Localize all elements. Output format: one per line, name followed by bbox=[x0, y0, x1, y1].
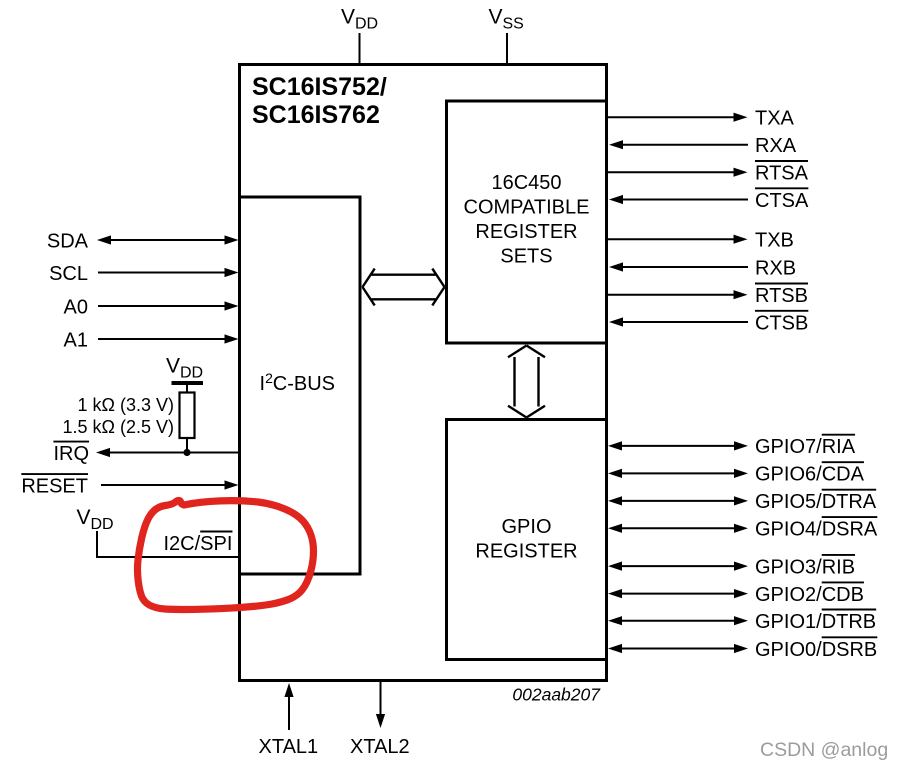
pin GPIO1/DTRB (bidirectional) bbox=[608, 610, 876, 634]
svg-text:RESET: RESET bbox=[21, 475, 88, 497]
power symbol VDD (pull-up) bbox=[166, 355, 203, 384]
svg-text:CTSA: CTSA bbox=[755, 190, 809, 212]
svg-text:GPIO4/DSRA: GPIO4/DSRA bbox=[755, 519, 878, 541]
pin GPIO5/DTRA (bidirectional) bbox=[608, 490, 877, 514]
outer box SC16IS752/SC16IS762 bbox=[240, 65, 607, 681]
svg-text:GPIO5/DTRA: GPIO5/DTRA bbox=[755, 491, 877, 513]
svg-text:A1: A1 bbox=[64, 329, 88, 351]
svg-text:DD: DD bbox=[180, 365, 203, 382]
svg-text:I2C/SPI: I2C/SPI bbox=[164, 533, 233, 555]
label resistor value 1 kOhm (3.3 V) / 1.5 kOhm (2.5 V) bbox=[63, 395, 175, 437]
block 16C450 COMPATIBLE REGISTER SETS bbox=[447, 101, 607, 343]
svg-text:A0: A0 bbox=[64, 296, 88, 318]
pin A0 (input) bbox=[64, 296, 239, 318]
power pin VSS (top) bbox=[489, 6, 524, 33]
pin SCL (input) bbox=[49, 263, 238, 285]
bus arrow 16C450 to GPIO REGISTER (vertical double arrow) bbox=[508, 346, 545, 418]
pin XTAL2 (output) bbox=[350, 682, 410, 758]
pin GPIO6/CDA (bidirectional) bbox=[608, 462, 865, 486]
svg-text:DD: DD bbox=[91, 516, 114, 533]
svg-text:CTSB: CTSB bbox=[755, 312, 808, 334]
svg-text:GPIO7/RIA: GPIO7/RIA bbox=[755, 436, 856, 458]
pin SDA (bidirectional) bbox=[47, 230, 239, 252]
svg-text:GPIO6/CDA: GPIO6/CDA bbox=[755, 464, 865, 486]
svg-text:C-BUS: C-BUS bbox=[273, 373, 335, 395]
svg-text:002aab207: 002aab207 bbox=[512, 685, 601, 705]
svg-text:TXA: TXA bbox=[755, 108, 795, 130]
svg-text:1 kΩ (3.3 V): 1 kΩ (3.3 V) bbox=[78, 395, 175, 415]
label figure id 002aab207 bbox=[512, 685, 601, 705]
wire VDD to I2C/SPI pin bbox=[96, 531, 240, 557]
svg-text:TXB: TXB bbox=[755, 230, 794, 252]
pin CTSB (input, active low) bbox=[609, 311, 808, 335]
svg-text:RXB: RXB bbox=[755, 257, 796, 279]
annotation red circle around I2C/SPI bbox=[137, 501, 313, 610]
svg-text:V: V bbox=[166, 355, 180, 378]
power pin VDD (I2C/SPI select) bbox=[77, 506, 114, 533]
svg-text:IRQ: IRQ bbox=[53, 443, 89, 465]
pin GPIO0/DSRB (bidirectional) bbox=[608, 637, 877, 661]
pin RTSA (output, active low) bbox=[607, 161, 809, 185]
svg-text:GPIO0/DSRB: GPIO0/DSRB bbox=[755, 639, 877, 661]
pin XTAL1 (input) bbox=[259, 683, 319, 758]
pin RXA (input) bbox=[609, 135, 797, 157]
wire VDD bar to resistor bbox=[186, 385, 188, 393]
pin A1 (input) bbox=[64, 329, 239, 351]
svg-text:SC16IS762: SC16IS762 bbox=[252, 101, 380, 129]
wire resistor to IRQ line bbox=[186, 438, 188, 453]
watermark CSDN @anlog bbox=[760, 739, 888, 761]
pin RXB (input) bbox=[609, 257, 796, 279]
svg-text:REGISTER: REGISTER bbox=[475, 221, 577, 243]
svg-text:SDA: SDA bbox=[47, 230, 89, 252]
bus arrow I2C-BUS to 16C450 (horizontal double arrow) bbox=[363, 269, 445, 306]
power pin VDD (top) bbox=[341, 6, 378, 33]
wire VSS to box top bbox=[506, 33, 508, 64]
svg-text:V: V bbox=[489, 6, 503, 29]
svg-text:REGISTER: REGISTER bbox=[475, 541, 577, 563]
svg-text:CSDN @anlog: CSDN @anlog bbox=[760, 739, 888, 761]
svg-text:GPIO2/CDB: GPIO2/CDB bbox=[755, 584, 864, 606]
svg-text:1.5 kΩ (2.5 V): 1.5 kΩ (2.5 V) bbox=[63, 417, 175, 437]
pin GPIO2/CDB (bidirectional) bbox=[608, 582, 864, 606]
svg-text:DD: DD bbox=[355, 16, 378, 33]
svg-text:RTSA: RTSA bbox=[755, 163, 809, 185]
svg-text:XTAL1: XTAL1 bbox=[259, 736, 319, 758]
svg-text:SS: SS bbox=[503, 16, 524, 33]
svg-text:GPIO1/DTRB: GPIO1/DTRB bbox=[755, 611, 876, 633]
pin TXB (output) bbox=[607, 230, 794, 252]
svg-text:SC16IS752/: SC16IS752/ bbox=[252, 73, 387, 101]
svg-text:GPIO3/RIB: GPIO3/RIB bbox=[755, 556, 855, 578]
label SC16IS752/SC16IS762 bbox=[252, 73, 387, 129]
pin GPIO7/RIA (bidirectional) bbox=[608, 435, 856, 459]
svg-text:XTAL2: XTAL2 bbox=[350, 736, 410, 758]
pin CTSA (input, active low) bbox=[609, 188, 809, 212]
svg-text:COMPATIBLE: COMPATIBLE bbox=[464, 197, 590, 219]
svg-text:SCL: SCL bbox=[49, 263, 88, 285]
svg-text:16C450: 16C450 bbox=[491, 172, 561, 194]
wire VDD to box top bbox=[359, 33, 361, 64]
svg-text:RTSB: RTSB bbox=[755, 285, 808, 307]
svg-text:V: V bbox=[77, 506, 91, 529]
pin GPIO3/RIB (bidirectional) bbox=[608, 555, 855, 579]
svg-text:V: V bbox=[341, 6, 355, 29]
pin TXA (output) bbox=[607, 108, 795, 130]
block I2C-BUS bbox=[240, 197, 361, 574]
junction dot on IRQ line bbox=[183, 449, 190, 456]
pin GPIO4/DSRA (bidirectional) bbox=[608, 517, 878, 541]
svg-text:RXA: RXA bbox=[755, 135, 797, 157]
pin IRQ (output, active low) bbox=[53, 442, 239, 465]
pin label I2C/SPI (SPI active low) bbox=[164, 532, 233, 556]
block GPIO REGISTER bbox=[447, 420, 607, 660]
resistor R1 1k/1.5k pull-up bbox=[180, 393, 195, 439]
pin RTSB (output, active low) bbox=[607, 284, 808, 308]
pin RESET (input, active low) bbox=[21, 474, 238, 497]
svg-text:GPIO: GPIO bbox=[501, 516, 551, 538]
svg-text:SETS: SETS bbox=[500, 246, 552, 268]
